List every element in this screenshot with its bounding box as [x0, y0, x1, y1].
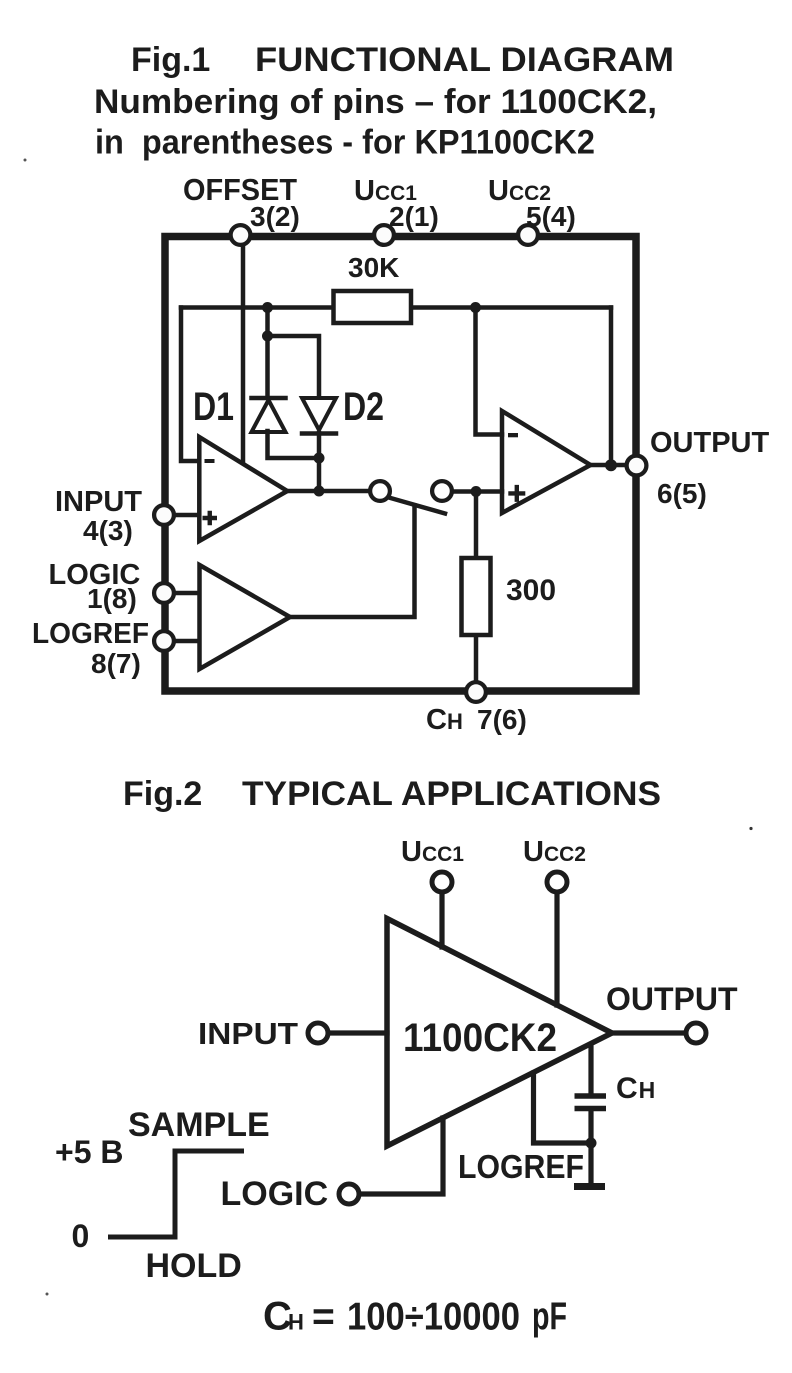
switch contact right: [432, 481, 452, 501]
svg-text:TYPICAL APPLICATIONS: TYPICAL APPLICATIONS: [242, 775, 661, 813]
pin UCC1 2(1): [374, 225, 394, 245]
node: hold capacitor node junction: [471, 486, 482, 497]
svg-text:INPUT: INPUT: [198, 1016, 298, 1051]
svg-text:CH: CH: [426, 704, 463, 736]
svg-text:pF: pF: [532, 1296, 567, 1339]
pin INPUT 4(3): [154, 505, 174, 525]
wire: INPUT to U1 non-inverting input: [165, 513, 199, 518]
op-amp U1: [199, 437, 287, 541]
wire: diode branch stem: [265, 308, 270, 337]
svg-text:Fig.1: Fig.1: [131, 41, 210, 79]
wire: U1 output to switch: [287, 489, 372, 494]
wire: INPUT to triangle: [331, 1030, 387, 1035]
diode D2: [302, 398, 336, 434]
svg-text:OUTPUT: OUTPUT: [650, 427, 770, 459]
pin LOGREF 8(7): [154, 631, 174, 651]
svg-text:100÷10000: 100÷10000: [347, 1296, 520, 1339]
svg-text:+5 B: +5 B: [55, 1134, 123, 1170]
diode D1: [252, 398, 286, 432]
node: diode bottoms junction: [314, 453, 325, 464]
svg-text:LOGREF: LOGREF: [458, 1148, 584, 1185]
svg-text:7(6): 7(6): [477, 704, 527, 735]
svg-text:0: 0: [72, 1218, 90, 1254]
svg-text:in parentheses - for KP1100CK: in parentheses - for KP1100CK2: [95, 124, 595, 162]
logic buffer U3: [200, 565, 291, 669]
svg-text:4(3): 4(3): [83, 515, 133, 546]
svg-text:1(8): 1(8): [87, 583, 137, 614]
pin LOGIC 1(8): [154, 583, 174, 603]
svg-text:3(2): 3(2): [250, 201, 300, 232]
wire: diode bottoms join: [268, 431, 320, 491]
node: 30K rail / diode branch junction: [262, 302, 273, 313]
svg-text:Numbering of pins – for 1100CK: Numbering of pins – for 1100CK2,: [94, 83, 657, 121]
wire: below capacitor to ground: [588, 1111, 593, 1182]
pin OUTPUT 6(5): [627, 456, 647, 476]
wire: feedback left segment to U1 inverting input: [181, 308, 199, 462]
svg-text:D1: D1: [193, 385, 234, 429]
wire: LOGIC to triangle lower edge: [362, 1118, 443, 1194]
capacitor CH plates: [575, 1096, 607, 1109]
switch lever: [391, 498, 446, 514]
wire: OUTPUT: [612, 1030, 684, 1035]
wire: LOGIC to buffer: [165, 591, 199, 596]
pin CH 7(6): [466, 682, 486, 702]
pin OUTPUT fig2: [686, 1023, 706, 1043]
sample/hold waveform: [108, 1151, 244, 1237]
svg-text:OUTPUT: OUTPUT: [606, 981, 738, 1017]
svg-text:300: 300: [506, 574, 556, 607]
svg-text:Fig.2: Fig.2: [123, 775, 202, 813]
speck: [24, 159, 27, 162]
svg-text:SAMPLE: SAMPLE: [128, 1106, 270, 1144]
svg-text:30K: 30K: [348, 252, 399, 283]
svg-text:HOLD: HOLD: [146, 1247, 242, 1285]
svg-text:2(1): 2(1): [389, 201, 439, 232]
svg-text:D2: D2: [343, 385, 384, 429]
wire: switch output to U2 non-inverting input: [450, 489, 502, 494]
U2 minus: [508, 433, 518, 437]
speck: [749, 827, 752, 830]
svg-text:FUNCTIONAL DIAGRAM: FUNCTIONAL DIAGRAM: [255, 41, 674, 79]
svg-text:CH: CH: [616, 1072, 655, 1105]
U1 plus: [203, 511, 218, 526]
switch contact left: [370, 481, 390, 501]
wire: UCC2 drop: [554, 894, 559, 1005]
svg-text:8(7): 8(7): [91, 648, 141, 679]
resistor 30K body: [334, 291, 412, 323]
wire: buffer output to switch control: [290, 506, 415, 618]
op-amp U2: [502, 411, 591, 513]
node: U1 output / diode junction: [314, 486, 325, 497]
wire: OFFSET drop to op-amp U1: [241, 240, 246, 461]
wire: LOGREF stub from triangle lower edge: [534, 1073, 592, 1143]
wire: LOGREF to buffer: [165, 639, 199, 644]
wire: right feedback drop to output node: [609, 308, 614, 466]
resistor 300 body: [462, 558, 491, 635]
pin UCC1 fig2: [432, 872, 452, 892]
wire: U2 output to OUTPUT pin: [589, 463, 637, 468]
svg-text:INPUT: INPUT: [55, 486, 142, 518]
node: LOGREF junction dot: [586, 1138, 597, 1149]
IC boundary box: [165, 237, 636, 692]
wire: 30K top rail: [181, 305, 611, 310]
node: U2 output / feedback junction: [605, 459, 617, 471]
pin INPUT fig2: [308, 1023, 328, 1043]
svg-text:5(4): 5(4): [526, 201, 576, 232]
ground: [574, 1183, 605, 1190]
U1 minus: [205, 459, 215, 463]
pin UCC2 fig2: [547, 872, 567, 892]
svg-text:=: =: [312, 1296, 335, 1339]
pin OFFSET 3(2): [231, 225, 251, 245]
wire: hold node down to 300 resistor and CH pin: [474, 492, 479, 693]
node: diode branch split junction: [262, 331, 273, 342]
svg-text:LOGREF: LOGREF: [32, 618, 149, 650]
pin LOGIC fig2: [339, 1184, 359, 1204]
pin UCC2 5(4): [518, 225, 538, 245]
svg-text:6(5): 6(5): [657, 478, 707, 509]
wire: CH branch from triangle lower edge: [588, 1048, 593, 1093]
U2 plus: [508, 485, 525, 502]
wire: UCC1 drop: [439, 894, 444, 947]
amplifier triangle 1100CK2: [387, 919, 612, 1147]
speck: [46, 1293, 49, 1296]
svg-text:LOGIC: LOGIC: [221, 1175, 329, 1213]
svg-text:1100CK2: 1100CK2: [403, 1016, 557, 1060]
wire: diode branch split: [268, 336, 320, 397]
wire: branch to U2 inverting input: [476, 308, 503, 435]
node: 30K rail / U2 inverting branch junction: [470, 302, 481, 313]
svg-text:H: H: [288, 1310, 304, 1335]
